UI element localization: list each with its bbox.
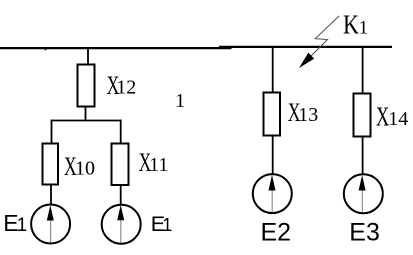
svg-text:1: 1	[175, 90, 185, 112]
wire: bus to X14	[362, 47, 364, 94]
arrow inside E1 left	[47, 205, 54, 242]
arrow inside E1 right	[117, 205, 124, 243]
svg-text:12: 12	[116, 77, 136, 99]
wire: horizontal split	[51, 120, 122, 122]
reactor X14	[354, 94, 371, 137]
wire: X11 to generator E1 right	[120, 185, 122, 205]
svg-text:E2: E2	[261, 219, 292, 247]
label X11	[139, 148, 169, 177]
label X13	[288, 98, 319, 127]
svg-text:14: 14	[388, 108, 408, 130]
generator E2 circle	[253, 174, 292, 213]
fault K1 lightning bolt	[299, 16, 339, 68]
svg-text:E3: E3	[349, 219, 380, 247]
reactor X11	[112, 144, 129, 186]
wire: X10 to generator E1 left	[50, 185, 52, 205]
arrow inside E3	[359, 175, 366, 212]
label E1 right	[151, 212, 173, 236]
label K1	[343, 11, 368, 41]
reactor X10	[43, 144, 59, 185]
wire: X12 to split junction	[85, 107, 87, 121]
reactor X12	[78, 65, 95, 107]
wire: bus to X13	[272, 47, 274, 93]
arrow inside E2	[269, 175, 276, 212]
generator E1 left circle	[31, 205, 70, 244]
wire: split to X10	[51, 120, 53, 144]
junction speck on busbar	[44, 48, 46, 50]
generator E1 right circle	[102, 205, 141, 244]
svg-text:13: 13	[298, 104, 318, 126]
wire: X13 to generator E2	[272, 136, 274, 175]
svg-text:11: 11	[149, 154, 168, 176]
wire: bus to X12	[87, 48, 89, 65]
svg-text:1: 1	[17, 215, 28, 236]
svg-text:K: K	[343, 11, 359, 41]
wire: busbar 1 left segment	[0, 47, 232, 49]
svg-text:1: 1	[162, 215, 172, 235]
svg-text:1: 1	[359, 18, 369, 39]
svg-text:10: 10	[75, 158, 95, 180]
wire: split to X11	[120, 120, 122, 144]
reactor X13	[264, 93, 281, 136]
generator E3 circle	[344, 174, 383, 213]
label X12	[107, 71, 137, 100]
label E1 left	[3, 210, 27, 236]
label X10	[64, 151, 95, 180]
wire: X14 to generator E3	[362, 137, 364, 175]
label X14	[376, 101, 408, 131]
wire: busbar 1 right segment	[219, 46, 392, 48]
